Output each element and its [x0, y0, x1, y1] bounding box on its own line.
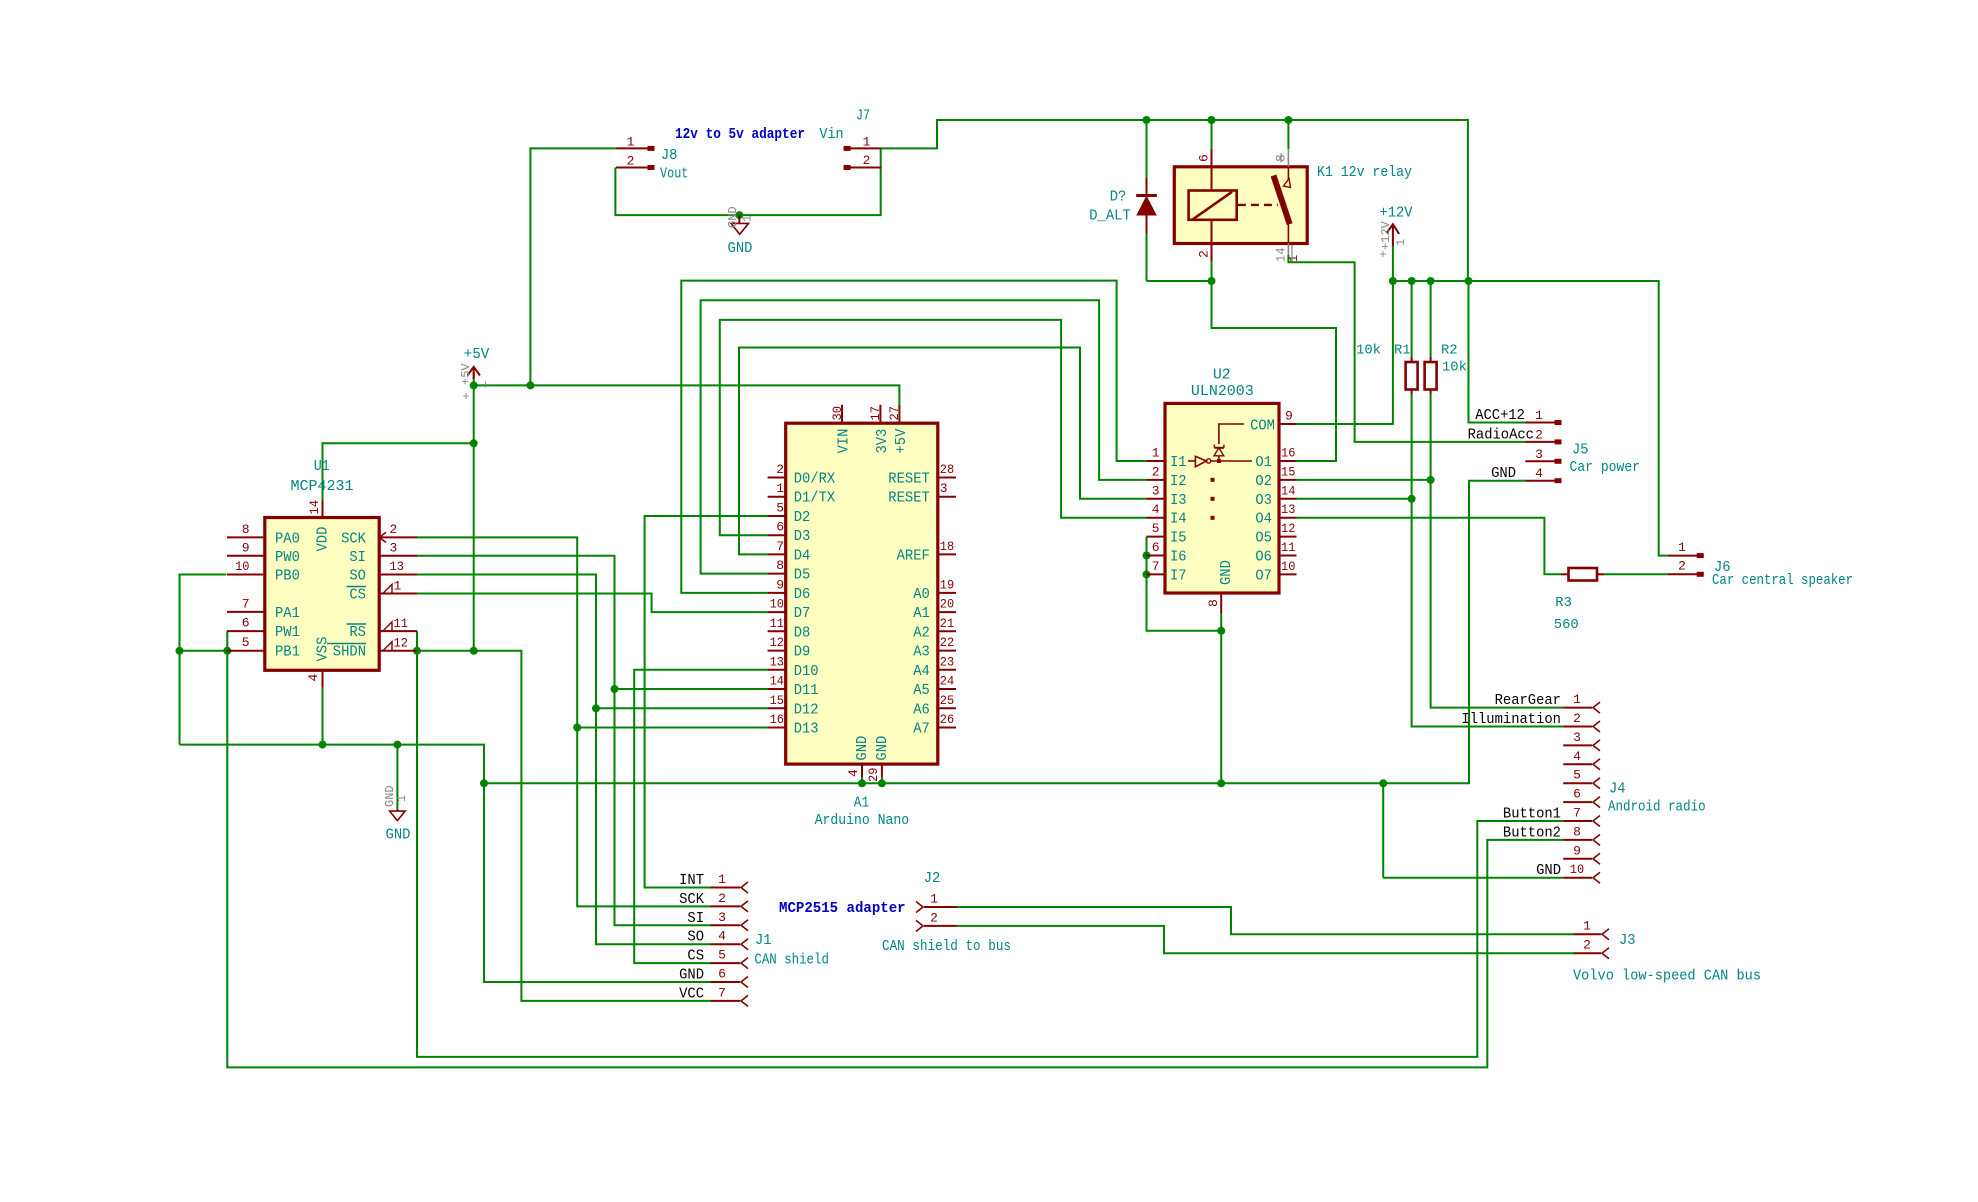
A1 pin 21 A2: [913, 616, 956, 642]
U2 pin 4 I4: [1147, 502, 1187, 528]
J5 pin 2: [1468, 427, 1562, 444]
svg-text:5: 5: [242, 635, 250, 650]
svg-text:O3: O3: [1255, 492, 1272, 509]
svg-text:+5V: +5V: [459, 363, 473, 385]
A1 pin 12 D9: [768, 635, 811, 661]
svg-text:10k: 10k: [1442, 360, 1467, 376]
svg-text:ULN2003: ULN2003: [1191, 383, 1254, 400]
svg-text:A1: A1: [913, 605, 930, 622]
node top rail diode junction: [1143, 116, 1293, 124]
A1 pin 13 D10: [768, 654, 819, 680]
svg-text:D4: D4: [794, 547, 811, 564]
wire D11 to SI net: [615, 688, 768, 690]
svg-text:3: 3: [1535, 447, 1543, 462]
wire U1 PB0-PB1 tie: [176, 575, 227, 745]
svg-text:D10: D10: [794, 663, 819, 680]
svg-text:I4: I4: [1170, 511, 1187, 528]
J4 pin 5: [1563, 768, 1600, 789]
svg-text:8: 8: [776, 558, 784, 573]
J5 pin 3: [1525, 447, 1561, 464]
wire relay pin2 node to U2 O1: [1212, 281, 1337, 461]
svg-text:24: 24: [940, 674, 955, 689]
J1 pin 1 INT: [679, 872, 748, 893]
svg-text:5: 5: [1573, 768, 1581, 783]
svg-text:+12V: +12V: [1379, 220, 1393, 250]
K1 pin 6: [1197, 120, 1212, 191]
svg-text:R2: R2: [1441, 343, 1458, 359]
svg-text:J7: J7: [856, 108, 870, 125]
svg-text:27: 27: [887, 406, 902, 420]
wire relay pin14 to J5 RadioAcc: [1288, 255, 1525, 442]
svg-text:SI: SI: [349, 549, 366, 566]
svg-text:1: 1: [1287, 255, 1301, 262]
svg-text:PW1: PW1: [275, 624, 300, 641]
svg-text:CS: CS: [349, 587, 366, 604]
svg-text:7: 7: [242, 597, 250, 612]
U1 MCP4231 body: [265, 458, 379, 670]
svg-text:GND: GND: [1536, 863, 1561, 879]
svg-text:8: 8: [1573, 824, 1581, 839]
U2 pin 1 I1: [1147, 446, 1187, 472]
power +12V symbol: [1379, 205, 1413, 282]
svg-text:10k: 10k: [1356, 343, 1381, 359]
svg-text:11: 11: [1281, 540, 1296, 555]
J1 pin 4 SO: [687, 929, 748, 950]
J1 pin 7 VCC: [679, 985, 748, 1006]
wire U2 COM to +12V rail: [1297, 281, 1393, 424]
U1 pin 13 SO: [349, 559, 417, 585]
svg-text:O7: O7: [1255, 567, 1272, 584]
svg-text:RadioAcc: RadioAcc: [1468, 427, 1534, 443]
A1 pin 6 D3: [768, 520, 811, 546]
svg-text:O1: O1: [1255, 454, 1272, 471]
U2 pin 16 O1: [1255, 446, 1296, 472]
svg-text:6: 6: [1197, 154, 1212, 162]
svg-text:16: 16: [1281, 446, 1295, 461]
svg-text:VCC: VCC: [679, 986, 704, 1002]
svg-text:4: 4: [1152, 502, 1160, 517]
svg-text:1: 1: [627, 135, 635, 150]
A1 pin 25 A6: [913, 693, 956, 719]
K1 coil: [1189, 191, 1237, 220]
U1 pin 10 PB0: [227, 559, 300, 585]
svg-text:30: 30: [830, 406, 845, 420]
wire rail B PB1 buttons: [0, 0, 1, 1]
svg-text:1: 1: [394, 579, 402, 594]
svg-text:VSS: VSS: [315, 637, 332, 662]
wire main GND rail: [480, 481, 1525, 788]
svg-text:6: 6: [776, 520, 784, 535]
J4 labels: [1608, 781, 1706, 816]
svg-text:2: 2: [863, 153, 871, 168]
svg-text:Arduino Nano: Arduino Nano: [815, 812, 910, 829]
svg-text:2: 2: [1678, 559, 1686, 574]
wire D2 to J1 INT: [645, 516, 768, 888]
svg-text:8: 8: [1206, 599, 1221, 607]
svg-text:+: +: [1379, 248, 1386, 262]
wire SHDN row to J1 VCC: [417, 651, 711, 1001]
U2 pin 14 O3: [1255, 483, 1296, 509]
svg-text:1: 1: [930, 892, 938, 907]
svg-text:Vout: Vout: [660, 166, 688, 183]
svg-text:6: 6: [1573, 787, 1581, 802]
svg-text:O5: O5: [1255, 530, 1272, 547]
svg-text:J1: J1: [755, 932, 772, 949]
svg-text:13: 13: [770, 654, 784, 669]
wire D4 to U2 I3: [739, 348, 1147, 555]
svg-text:Button2: Button2: [1503, 825, 1561, 841]
svg-text:28: 28: [940, 462, 954, 477]
wire D6 to U2 I1: [681, 281, 1146, 593]
U1 pin 6 PW1: [227, 616, 300, 642]
svg-text:MCP4231: MCP4231: [291, 478, 354, 495]
J7 connector Vin: [819, 108, 881, 170]
svg-text:D13: D13: [794, 721, 819, 738]
K1 pin 2: [1197, 220, 1212, 281]
svg-text:J3: J3: [1619, 932, 1636, 949]
svg-text:SHDN: SHDN: [333, 644, 366, 661]
A1 pin 20 A1: [913, 597, 956, 623]
svg-text:11: 11: [394, 616, 409, 631]
J6 pin 1: [1668, 540, 1704, 558]
wire diode to relay pin2 node: [1147, 277, 1216, 285]
svg-text:1: 1: [1535, 408, 1543, 423]
svg-text:U1: U1: [314, 458, 330, 475]
J2 connector: [916, 870, 957, 931]
svg-text:D8: D8: [794, 624, 811, 641]
svg-text:1: 1: [1152, 446, 1160, 461]
U2 pin 15 O2: [1255, 464, 1296, 490]
svg-text:8: 8: [242, 522, 250, 537]
svg-text:D9: D9: [794, 644, 811, 661]
svg-text:PB1: PB1: [275, 644, 300, 661]
svg-text:INT: INT: [679, 873, 704, 889]
A1 pin 30 VIN: [830, 405, 853, 454]
U1 pin 7 PA1: [227, 597, 300, 623]
A1 pin 26 A7: [913, 712, 956, 738]
svg-text:GND: GND: [1218, 560, 1235, 585]
svg-text:Button1: Button1: [1503, 807, 1561, 823]
svg-text:A6: A6: [913, 701, 930, 718]
U2 pin 11 O6: [1255, 540, 1296, 566]
A1 pin 14 D11: [768, 674, 819, 700]
svg-text:23: 23: [940, 654, 954, 669]
wire J2 pin1 to J3 pin1: [957, 907, 1573, 934]
U1 pin 14 VDD: [307, 500, 332, 552]
U2 ULN2003 body: [1165, 367, 1279, 594]
text MCP2515 adapter: [779, 901, 906, 917]
U2 pin 3 I3: [1147, 483, 1187, 509]
J4 pin 2: [1461, 711, 1600, 732]
svg-text:18: 18: [940, 539, 954, 554]
svg-text:I7: I7: [1170, 567, 1187, 584]
A1 pin 2 D0/RX: [768, 462, 836, 488]
svg-text:O2: O2: [1255, 473, 1272, 490]
wire U1 SCK to J1 SCK: [417, 537, 711, 906]
svg-text:4: 4: [718, 929, 726, 944]
svg-text:21: 21: [940, 616, 955, 631]
U2 pin 12 O5: [1255, 521, 1296, 547]
svg-text:4: 4: [1573, 749, 1581, 764]
J1 pin 2 SCK: [679, 891, 748, 912]
U2 pin 7 I7: [1147, 559, 1187, 585]
svg-text:PA0: PA0: [275, 531, 300, 548]
svg-text:RESET: RESET: [888, 490, 930, 507]
wire U1 SI to J1 SI: [417, 556, 711, 926]
svg-text:SCK: SCK: [341, 531, 366, 548]
svg-text:6: 6: [718, 967, 726, 982]
U2 pin 9 COM: [1250, 409, 1296, 435]
svg-text:K1 12v relay: K1 12v relay: [1317, 164, 1412, 181]
svg-text:PW0: PW0: [275, 549, 300, 566]
svg-text:D?: D?: [1110, 189, 1127, 206]
A1 pin 18 AREF: [897, 539, 956, 565]
wire PB1 row: [180, 650, 228, 652]
wire U1 SO to J1 SO: [417, 575, 711, 945]
wire U1 VSS stem: [319, 688, 327, 749]
wire J8 pin1 to +5V rail: [530, 148, 616, 385]
svg-text:14: 14: [770, 674, 785, 689]
svg-text:ACC+12: ACC+12: [1475, 408, 1525, 424]
J4 pin 3: [1563, 730, 1600, 751]
wire U2 O2 row: [1297, 479, 1431, 481]
svg-text:6: 6: [1152, 540, 1160, 555]
diode D? D_ALT: [1089, 120, 1157, 281]
A1 pin 27 +5V: [887, 405, 910, 454]
wire J2 pin2 to J3 pin2: [957, 926, 1573, 953]
wire U1 CS to D7: [417, 594, 768, 613]
power +5V symbol: [459, 346, 489, 404]
svg-text:VIN: VIN: [836, 429, 853, 454]
text CAN shield to bus: [882, 938, 1011, 955]
svg-text:2: 2: [1152, 464, 1160, 479]
wire U1 VDD to +5V: [323, 439, 478, 500]
J4 pin 1: [1495, 692, 1600, 713]
svg-text:9: 9: [242, 541, 250, 556]
A1 pin 8 D5: [768, 558, 811, 584]
wire rail A +5V buttons: [0, 0, 1, 1]
svg-text:A2: A2: [913, 624, 930, 641]
svg-text:SO: SO: [687, 930, 704, 946]
A1 pin 23 A4: [913, 654, 956, 680]
J4 pin 7: [1503, 806, 1600, 827]
wire J4 GND branch: [1379, 779, 1563, 877]
wire U2 O4 to R3: [1297, 518, 1562, 575]
svg-text:10: 10: [770, 597, 784, 612]
wire U2 O3 row: [1297, 498, 1412, 500]
svg-text:CS: CS: [687, 949, 704, 965]
A1 pin 11 D8: [768, 616, 811, 642]
svg-text:560: 560: [1554, 617, 1579, 633]
resistor R1 10k: [1356, 281, 1418, 395]
U1 pin 1 CS: [347, 579, 418, 604]
svg-text:COM: COM: [1250, 418, 1275, 435]
wire D10 to J1 CS: [634, 670, 767, 963]
wire U2 GND stem to rail: [1217, 613, 1225, 787]
J1 pin 5 CS: [687, 948, 748, 969]
text 12v to 5v adapter: [675, 127, 805, 143]
J6 labels: [1712, 559, 1853, 589]
svg-text:Volvo low-speed CAN bus: Volvo low-speed CAN bus: [1573, 968, 1761, 985]
svg-text:D5: D5: [794, 567, 811, 584]
J6 pin 2: [1668, 559, 1704, 577]
svg-text:D7: D7: [794, 605, 811, 622]
U1 pin 2 SCK: [341, 522, 417, 548]
svg-text:A4: A4: [913, 663, 930, 680]
svg-text:D0/RX: D0/RX: [794, 471, 836, 488]
A1 pin 15 D12: [768, 693, 819, 719]
U2 pin 8 GND: [1206, 560, 1235, 613]
U1 pin 12 SHDN: [327, 636, 417, 661]
svg-text:1: 1: [741, 215, 755, 222]
wire +5V down to SHDN row: [470, 385, 478, 654]
svg-text:Vin: Vin: [819, 126, 843, 143]
svg-text:Car central speaker: Car central speaker: [1712, 572, 1853, 589]
svg-text:D2: D2: [794, 509, 811, 526]
svg-text:CAN shield to bus: CAN shield to bus: [882, 938, 1011, 955]
A1 pin 1 D1/TX: [768, 481, 836, 507]
K1 pin 14: [1274, 224, 1302, 262]
svg-text:GND: GND: [386, 827, 411, 844]
wire U1 RS to SHDN row: [413, 631, 421, 655]
U1 pin 5 PB1: [227, 635, 300, 661]
J5 pin 1: [1475, 408, 1561, 425]
svg-text:RS: RS: [349, 624, 366, 641]
svg-text:J4: J4: [1609, 781, 1626, 798]
J1 pin 6 GND: [679, 967, 748, 988]
wire U1 PW1 tie: [223, 631, 231, 655]
svg-text:D6: D6: [794, 586, 811, 603]
A1 pin 9 D6: [768, 577, 811, 603]
svg-text:3: 3: [718, 910, 726, 925]
svg-text:10: 10: [1281, 559, 1295, 574]
svg-text:PB0: PB0: [275, 568, 300, 585]
svg-text:1: 1: [395, 795, 409, 802]
svg-text:I3: I3: [1170, 492, 1187, 509]
svg-text:3V3: 3V3: [874, 429, 891, 454]
J4 pin 4: [1563, 749, 1600, 770]
svg-text:J8: J8: [661, 147, 678, 164]
svg-text:VDD: VDD: [315, 527, 332, 552]
svg-text:R3: R3: [1555, 595, 1572, 611]
svg-text:4: 4: [846, 769, 861, 777]
svg-text:3: 3: [1573, 730, 1581, 745]
U2 pin 2 I2: [1147, 464, 1187, 490]
svg-text:5: 5: [718, 948, 726, 963]
ground GND symbol near U1: [383, 741, 410, 844]
A1 pin 29 GND: [866, 736, 891, 782]
U2 pin 6 I6: [1147, 540, 1187, 566]
svg-text:1: 1: [1583, 919, 1591, 934]
svg-text:U2: U2: [1213, 367, 1231, 384]
svg-text:+5V: +5V: [893, 429, 910, 454]
U2 pin 5 I5: [1147, 521, 1187, 547]
wire D12 to SO net: [596, 707, 768, 709]
svg-text:2: 2: [718, 891, 726, 906]
svg-text:2: 2: [1197, 250, 1212, 258]
U2 pin 13 O4: [1255, 502, 1296, 528]
svg-text:4: 4: [1535, 466, 1543, 481]
svg-text:D11: D11: [794, 682, 819, 699]
wire SHDN net to rail A: [417, 651, 1563, 1057]
resistor R3 560: [1554, 568, 1604, 633]
K1 switch: [1238, 176, 1291, 225]
svg-text:17: 17: [868, 406, 883, 420]
J4 pin 9: [1563, 843, 1600, 864]
J4 pin 8: [1503, 824, 1600, 845]
J1 pin 3 SI: [687, 910, 748, 931]
resistor R2 10k: [1425, 281, 1467, 395]
svg-text:2: 2: [930, 911, 938, 926]
svg-text:R1: R1: [1394, 343, 1411, 359]
svg-text:A7: A7: [913, 721, 930, 738]
svg-text:SI: SI: [687, 911, 704, 927]
svg-text:7: 7: [1573, 806, 1581, 821]
svg-text:GND: GND: [679, 968, 704, 984]
svg-text:GND: GND: [874, 736, 891, 761]
J5 labels: [1570, 442, 1641, 477]
svg-text:10: 10: [235, 559, 249, 574]
wire J8 pin2 to GND: [615, 148, 880, 215]
U2 internal driver symbol: [1188, 424, 1252, 520]
wire D13 to SCK net: [577, 727, 767, 729]
J4 pin 10: [1536, 862, 1600, 883]
svg-text:I1: I1: [1170, 454, 1187, 471]
U1 pin 4 VSS: [306, 637, 332, 688]
svg-text:12: 12: [394, 636, 408, 651]
svg-text:J2: J2: [924, 870, 941, 887]
svg-text:1: 1: [1573, 692, 1581, 707]
svg-text:6: 6: [242, 616, 250, 631]
svg-text:GND: GND: [726, 206, 740, 228]
U1 pin 9 PW0: [227, 541, 300, 567]
A1 Arduino Nano body: [786, 423, 938, 829]
svg-text:RESET: RESET: [888, 471, 930, 488]
svg-text:1: 1: [1394, 239, 1408, 246]
wire R3 to J6 pin2: [1604, 573, 1668, 575]
svg-text:1: 1: [718, 872, 726, 887]
A1 pin 3 RESET: [888, 481, 956, 507]
svg-text:2: 2: [776, 462, 784, 477]
svg-text:GND: GND: [1491, 466, 1516, 482]
wire R1 to J4 Illumination: [1408, 395, 1564, 727]
svg-text:O4: O4: [1255, 511, 1272, 528]
svg-text:16: 16: [770, 712, 784, 727]
wire +12V to J5 ACC+12: [1469, 281, 1526, 423]
svg-text:2: 2: [627, 154, 635, 169]
svg-text:12: 12: [1281, 521, 1295, 536]
svg-text:7: 7: [1152, 559, 1160, 574]
A1 pin 4 GND: [846, 736, 871, 777]
svg-text:12v to 5v adapter: 12v to 5v adapter: [675, 127, 805, 143]
svg-text:12: 12: [770, 635, 784, 650]
svg-text:+: +: [463, 390, 470, 404]
svg-text:D3: D3: [794, 528, 811, 545]
ground GND symbol between J8 J7: [726, 206, 755, 257]
node +5V rail junction: [526, 381, 534, 389]
svg-text:2: 2: [1573, 711, 1581, 726]
svg-text:AREF: AREF: [897, 547, 930, 564]
svg-text:19: 19: [940, 577, 954, 592]
svg-text:D1/TX: D1/TX: [794, 490, 836, 507]
svg-text:26: 26: [940, 712, 954, 727]
svg-text:1: 1: [863, 135, 871, 150]
svg-text:PA1: PA1: [275, 605, 300, 622]
wire A1 GND pins to rail: [858, 777, 886, 787]
wire D3 to U2 I4: [720, 320, 1147, 535]
svg-text:15: 15: [770, 693, 784, 708]
wire R2 to J4 RearGear: [1427, 395, 1564, 708]
